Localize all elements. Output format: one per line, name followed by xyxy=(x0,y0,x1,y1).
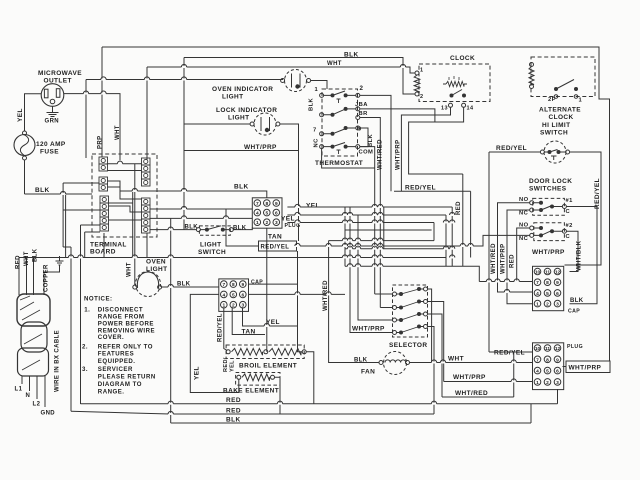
wire terminal board internal 4 xyxy=(109,219,142,221)
wire v345 xyxy=(344,207,346,266)
svg-text:2P: 2P xyxy=(548,97,556,103)
wire hi limit right xyxy=(565,152,602,265)
node L2 label xyxy=(33,402,41,408)
wire broil right down xyxy=(306,352,314,404)
wire GND lead xyxy=(44,376,46,407)
svg-text:POWER BEFORE: POWER BEFORE xyxy=(98,320,154,327)
svg-text:RED: RED xyxy=(16,255,22,269)
svg-text:2.: 2. xyxy=(82,344,88,351)
broil element label xyxy=(239,363,297,370)
svg-text:WHT/RED: WHT/RED xyxy=(378,139,384,170)
wire bundle y248.75 xyxy=(345,248,452,250)
wire frame left verticals xyxy=(63,183,100,411)
thermostat contacts row1 xyxy=(324,91,356,103)
node BLK label xyxy=(344,52,359,59)
svg-text:3: 3 xyxy=(556,380,559,386)
svg-text:11: 11 xyxy=(545,346,550,352)
svg-text:LIGHT: LIGHT xyxy=(222,94,244,101)
svg-text:CLOCK: CLOCK xyxy=(450,55,475,62)
svg-text:C: C xyxy=(566,209,571,215)
node WHT/PRP label xyxy=(244,144,277,151)
svg-text:2: 2 xyxy=(546,302,549,308)
wire C2 to cap WHT/BLK xyxy=(566,231,578,271)
svg-text:14: 14 xyxy=(467,106,474,112)
wire bundle h4 xyxy=(345,229,432,231)
svg-text:RED/YEL: RED/YEL xyxy=(405,185,436,192)
node YEL label xyxy=(17,108,24,122)
svg-text:SWITCH: SWITCH xyxy=(540,130,568,137)
svg-text:9: 9 xyxy=(556,280,559,286)
node WHT/PRP pair label xyxy=(396,140,402,170)
svg-text:#1: #1 xyxy=(566,198,574,204)
svg-text:YEL: YEL xyxy=(266,319,280,326)
microwave outlet xyxy=(41,84,64,107)
wire selector out1 xyxy=(428,289,432,363)
svg-text:4: 4 xyxy=(536,369,539,375)
svg-text:RED/YEL: RED/YEL xyxy=(261,245,290,251)
plug connector center xyxy=(252,198,282,228)
fan xyxy=(379,352,410,375)
wire lock ind right to WHT/PRP xyxy=(280,124,299,151)
BX cable sheath xyxy=(17,294,50,376)
svg-text:HI LIMIT: HI LIMIT xyxy=(542,122,570,129)
wire outlet right lead xyxy=(64,94,120,161)
wire BLK y190 into plug top xyxy=(133,191,267,198)
svg-text:2: 2 xyxy=(360,85,364,92)
wire vertical x86 xyxy=(85,80,87,159)
svg-text:4: 4 xyxy=(536,291,539,297)
svg-text:BLK: BLK xyxy=(368,133,374,147)
oven light label xyxy=(146,259,168,274)
node WHT label vertical xyxy=(115,125,121,140)
wire BLK bus y57.5 xyxy=(184,58,415,95)
wire terminal board internal 1 xyxy=(107,164,142,171)
wire fan left xyxy=(329,241,379,363)
wire WHT/PRP line xyxy=(184,150,299,152)
wire y79.5 outlet to oven indicator xyxy=(86,79,283,81)
svg-text:11: 11 xyxy=(545,270,550,276)
wire RED/YEL to hi limit xyxy=(489,151,540,153)
node BLK label xyxy=(33,248,39,262)
node WHT vertical label xyxy=(127,262,133,277)
svg-text:RED/YEL: RED/YEL xyxy=(496,145,527,152)
svg-text:YEL: YEL xyxy=(281,216,295,223)
svg-text:4: 4 xyxy=(256,211,259,217)
svg-text:WHT/BLK: WHT/BLK xyxy=(577,240,583,271)
svg-text:BLK: BLK xyxy=(35,187,50,194)
node BLK label xyxy=(354,358,368,364)
wire oven light up WHT xyxy=(134,164,136,285)
door lock 1 labels xyxy=(519,197,573,217)
node BLK label xyxy=(35,187,50,194)
alternate clock label xyxy=(539,107,581,122)
svg-text:6: 6 xyxy=(556,291,559,297)
wire selector row1 feed xyxy=(375,293,393,295)
svg-text:RED/YEL: RED/YEL xyxy=(594,178,601,209)
wire strip E to plug y218.4 xyxy=(150,217,253,219)
wire x470.6 RED drop xyxy=(470,191,472,257)
node WHT/RED vertical label xyxy=(323,280,329,311)
broil element xyxy=(226,348,306,355)
node RED vertical label xyxy=(456,201,462,215)
wire YEL jog to broil right xyxy=(243,307,303,352)
svg-text:TAN: TAN xyxy=(242,329,256,336)
node YEL label right xyxy=(306,203,320,210)
svg-text:C: C xyxy=(566,234,571,240)
wire fan right to plug xyxy=(410,362,533,364)
wire WHT drop xyxy=(26,258,28,296)
svg-text:9: 9 xyxy=(358,127,362,133)
svg-text:GND: GND xyxy=(41,411,56,417)
svg-text:WHT: WHT xyxy=(127,262,133,277)
clock coil xyxy=(414,68,423,101)
terminal board label xyxy=(90,242,127,256)
svg-text:ALTERNATE: ALTERNATE xyxy=(539,107,581,114)
node RED label xyxy=(16,255,22,269)
node WHT/RED vertical label xyxy=(491,243,497,274)
svg-text:THERMOSTAT: THERMOSTAT xyxy=(315,160,363,167)
svg-text:CAP: CAP xyxy=(568,309,580,315)
microwave outlet label xyxy=(38,70,82,85)
terminal board dashed box xyxy=(92,154,157,237)
wire pin14 via y122 xyxy=(409,107,464,174)
wire terminal board internal 3 xyxy=(109,203,142,212)
node FAN label xyxy=(361,369,375,376)
svg-text:9: 9 xyxy=(241,282,244,288)
svg-text:WHT/PRP: WHT/PRP xyxy=(532,249,565,256)
wire selector out3 xyxy=(428,314,443,397)
svg-text:3: 3 xyxy=(556,302,559,308)
svg-text:8: 8 xyxy=(265,201,268,207)
boxed RED/YEL tag xyxy=(226,209,297,251)
svg-text:WHT: WHT xyxy=(24,251,30,266)
svg-text:5: 5 xyxy=(232,292,235,298)
svg-text:7: 7 xyxy=(536,280,539,286)
wire COM down WHT/RED1 xyxy=(360,147,375,294)
node RED/YEL vertical label xyxy=(218,313,224,342)
svg-text:OVEN INDICATOR: OVEN INDICATOR xyxy=(212,86,273,93)
wire x170.7 vertical xyxy=(170,218,172,423)
wire BLK oven light to cap xyxy=(162,286,219,288)
wire selector out2 xyxy=(428,302,444,382)
svg-text:PLUG: PLUG xyxy=(567,344,583,350)
light switch label xyxy=(198,242,226,257)
node RED/YEL label xyxy=(405,185,436,192)
wire BLK line xyxy=(171,404,531,423)
node WIRE IN BX CABLE label xyxy=(55,330,61,392)
svg-text:RANGE.: RANGE. xyxy=(98,389,125,396)
node RED label small xyxy=(223,357,229,372)
svg-text:GRN: GRN xyxy=(45,119,60,125)
oven light xyxy=(133,272,162,297)
svg-text:1: 1 xyxy=(420,68,423,74)
svg-text:MICROWAVE: MICROWAVE xyxy=(38,70,82,77)
node WHT/PRP label xyxy=(352,326,385,333)
node CAP label xyxy=(568,309,580,315)
svg-text:DOOR LOCK: DOOR LOCK xyxy=(529,178,572,185)
fuse label xyxy=(36,141,66,156)
node RED/YEL vertical label xyxy=(594,178,601,209)
node YEL label xyxy=(194,366,201,380)
boxed WHT/PRP tag xyxy=(563,361,611,373)
wire row2 feed xyxy=(479,281,532,283)
svg-text:7: 7 xyxy=(313,128,317,134)
node WHT/BLK vertical label xyxy=(577,240,583,271)
svg-text:BLK: BLK xyxy=(309,97,315,111)
node L1 label xyxy=(15,387,23,393)
wire plug right bundle h3 xyxy=(287,222,434,224)
svg-text:5: 5 xyxy=(546,369,549,375)
svg-text:WHT/PRP: WHT/PRP xyxy=(569,365,602,372)
svg-text:BLK: BLK xyxy=(344,52,359,59)
wire NO1 drop xyxy=(498,203,533,292)
svg-text:WHT/PRP: WHT/PRP xyxy=(501,244,507,274)
svg-text:N: N xyxy=(26,393,31,399)
svg-text:NO: NO xyxy=(519,197,529,203)
wire lockout to tag xyxy=(298,151,299,327)
wire WHT bus y67 xyxy=(147,67,415,160)
node RED label xyxy=(226,397,241,404)
svg-text:COPPER: COPPER xyxy=(44,264,50,292)
thermostat pins right xyxy=(356,93,360,148)
cap connector center xyxy=(219,279,249,312)
svg-text:5: 5 xyxy=(546,291,549,297)
svg-text:NC: NC xyxy=(519,236,529,242)
svg-text:L2: L2 xyxy=(33,402,41,408)
svg-text:12: 12 xyxy=(555,270,561,276)
wire plug right bundle h2 xyxy=(287,215,446,266)
wire terminal board drops xyxy=(104,191,147,258)
wire RED/YEL down to plug xyxy=(488,152,490,352)
wire bundle y240.6 xyxy=(329,240,434,242)
notice text block xyxy=(82,296,156,396)
wire selector row2 feed xyxy=(380,307,392,309)
svg-text:CLOCK: CLOCK xyxy=(549,114,574,121)
node BLK label xyxy=(177,282,191,288)
selector dashed box xyxy=(393,285,428,337)
wire NC1 drop xyxy=(507,210,532,304)
node WHT label xyxy=(24,251,30,266)
wire TAN drop xyxy=(266,228,268,352)
svg-text:WHT: WHT xyxy=(115,125,121,140)
node RED/YEL label xyxy=(494,350,525,357)
node PLUG label xyxy=(285,223,301,229)
svg-text:1: 1 xyxy=(579,98,583,104)
node BLK label xyxy=(226,417,241,424)
svg-text:SWITCHES: SWITCHES xyxy=(529,186,567,193)
svg-text:WHT: WHT xyxy=(448,356,464,363)
svg-text:PLEASE RETURN: PLEASE RETURN xyxy=(98,374,156,381)
wire NC jog xyxy=(322,149,375,168)
svg-text:LIGHT: LIGHT xyxy=(200,242,222,249)
wire cap pin1 to broil left xyxy=(224,307,227,350)
node WHT label xyxy=(327,61,342,67)
oven indicator label xyxy=(212,86,273,101)
node WHT/PRP label above cap xyxy=(532,249,565,256)
node YEL label lower xyxy=(281,216,295,223)
wire terminal board internal 2 xyxy=(108,181,142,199)
wire WHT/RED to RED/YEL junction xyxy=(442,352,514,397)
wire BLK line y194 xyxy=(25,193,93,195)
svg-text:SWITCH: SWITCH xyxy=(198,249,226,256)
node WHT/RED wire label xyxy=(455,390,488,397)
svg-text:EQUIPPED.: EQUIPPED. xyxy=(98,358,136,365)
svg-text:13: 13 xyxy=(441,106,448,112)
clock pins 13 14 xyxy=(441,103,474,111)
svg-text:RED: RED xyxy=(226,408,241,415)
node RED label xyxy=(226,408,241,415)
svg-text:COM: COM xyxy=(359,150,374,156)
wire NC2 left xyxy=(297,235,530,246)
svg-text:7: 7 xyxy=(222,282,225,288)
wire pin2 to RED/YEL junction xyxy=(360,95,391,191)
thermostat pins left xyxy=(320,93,324,148)
node YEL label small xyxy=(230,360,236,372)
svg-text:6: 6 xyxy=(241,292,244,298)
wire RED/YEL into plug xyxy=(489,351,532,353)
svg-text:8: 8 xyxy=(546,280,549,286)
svg-text:DIAGRAM TO: DIAGRAM TO xyxy=(98,381,142,388)
clock switch xyxy=(450,90,467,98)
light switch xyxy=(196,226,233,232)
svg-text:7: 7 xyxy=(256,201,259,207)
svg-text:YEL: YEL xyxy=(230,360,236,372)
wire cap right y294 to fan drop xyxy=(249,293,345,295)
svg-text:PRP: PRP xyxy=(98,135,104,149)
wire BLK drop xyxy=(33,258,35,296)
wire selector out4 xyxy=(428,327,435,415)
wire v383.8 xyxy=(383,207,385,249)
selector contacts xyxy=(397,287,424,335)
light switch dashed box xyxy=(199,226,230,235)
door lock switch 2 xyxy=(530,226,567,237)
svg-text:TAN: TAN xyxy=(268,234,282,241)
svg-text:9: 9 xyxy=(275,201,278,207)
svg-text:6: 6 xyxy=(556,369,559,375)
svg-text:3: 3 xyxy=(241,303,244,309)
svg-text:12: 12 xyxy=(555,346,561,352)
node RED/YEL label xyxy=(496,145,527,152)
node RED vertical label xyxy=(510,254,516,268)
svg-text:RED: RED xyxy=(510,254,516,268)
svg-text:WHT/RED: WHT/RED xyxy=(491,243,497,274)
svg-text:2: 2 xyxy=(265,220,268,226)
svg-text:NC: NC xyxy=(519,211,529,217)
svg-text:10: 10 xyxy=(535,346,541,352)
svg-text:YEL: YEL xyxy=(17,108,24,122)
svg-text:1: 1 xyxy=(536,302,539,308)
thermostat contacts row3 xyxy=(324,126,356,136)
svg-text:YEL: YEL xyxy=(306,203,320,210)
terminal strip B xyxy=(99,177,108,191)
terminal strip C xyxy=(100,196,109,231)
wire YEL cap to bake xyxy=(190,294,239,392)
wire lock ind left xyxy=(184,123,250,125)
wire cap right y284 xyxy=(249,283,298,285)
node COPPER label xyxy=(44,264,50,292)
svg-text:BLK: BLK xyxy=(226,417,241,424)
svg-text:BLK: BLK xyxy=(233,226,247,232)
svg-text:REFER ONLY TO: REFER ONLY TO xyxy=(98,344,153,351)
svg-text:WHT/RED: WHT/RED xyxy=(455,390,488,397)
wire long bus y257.5 xyxy=(19,257,446,259)
svg-text:1.: 1. xyxy=(84,306,90,313)
thermostat contacts row2 xyxy=(324,107,356,117)
node CAP label xyxy=(251,280,263,286)
door lock switch 2 box xyxy=(534,223,565,241)
svg-text:OUTLET: OUTLET xyxy=(44,78,72,85)
wire PRP vertical from top line to terminal board xyxy=(101,47,103,157)
svg-text:SERVICER: SERVICER xyxy=(98,366,133,373)
svg-text:3: 3 xyxy=(275,220,278,226)
node GND label xyxy=(41,411,56,417)
terminal strip E xyxy=(142,198,151,233)
svg-text:OVEN: OVEN xyxy=(146,259,166,266)
svg-text:9: 9 xyxy=(556,357,559,363)
svg-text:RANGE FROM: RANGE FROM xyxy=(98,313,145,320)
svg-text:BROIL ELEMENT: BROIL ELEMENT xyxy=(239,363,297,370)
svg-text:1: 1 xyxy=(256,220,259,226)
svg-text:FEATURES: FEATURES xyxy=(98,351,134,358)
wire x184 vertical xyxy=(183,58,185,230)
thermostat contacts row4 xyxy=(324,143,356,155)
wire outlet left lead xyxy=(25,94,42,132)
svg-text:WHT/PRP: WHT/PRP xyxy=(396,140,402,170)
clock dashed box xyxy=(419,64,490,102)
svg-text:WHT/PRP: WHT/PRP xyxy=(453,374,486,381)
svg-text:RED: RED xyxy=(456,201,462,215)
selector right pins xyxy=(424,287,428,329)
svg-text:FUSE: FUSE xyxy=(40,149,59,156)
door lock switch 1 xyxy=(530,201,567,212)
node BLK label xyxy=(234,184,249,191)
svg-text:120 AMP: 120 AMP xyxy=(36,141,66,148)
svg-text:JBA: JBA xyxy=(355,102,368,108)
svg-text:LIGHT: LIGHT xyxy=(228,115,250,122)
hi limit label xyxy=(540,122,570,137)
node PLUG label xyxy=(567,344,583,350)
wire pin13 to RED/YEL xyxy=(401,107,450,191)
wire fuse bottom to BLK line xyxy=(24,160,26,194)
wire crossover hops xyxy=(61,64,520,415)
thermostat dashed box xyxy=(322,89,358,156)
node WHT/PRP wire label xyxy=(453,374,486,381)
node N label xyxy=(26,393,31,399)
svg-text:BOARD: BOARD xyxy=(90,249,116,256)
thermostat label xyxy=(315,160,363,167)
svg-text:BLK: BLK xyxy=(177,282,191,288)
door lock switches label xyxy=(529,178,572,193)
wire NO2 drop xyxy=(517,228,530,282)
node PRP label vertical xyxy=(98,135,104,149)
node BLK bracket label xyxy=(368,133,374,147)
wire WHT/PRP to plug xyxy=(444,381,532,383)
svg-text:TERMINAL: TERMINAL xyxy=(90,242,127,249)
svg-text:RED: RED xyxy=(226,397,241,404)
wire plug right bundle h1 xyxy=(287,207,452,266)
svg-text:1: 1 xyxy=(536,380,539,386)
oven indicator light xyxy=(281,70,311,92)
wire cap pin2 TAN jog xyxy=(232,307,265,335)
svg-text:FAN: FAN xyxy=(361,369,375,376)
wire bundle y266.25 xyxy=(345,266,479,281)
svg-text:6: 6 xyxy=(275,211,278,217)
clock label xyxy=(450,55,475,62)
bake element xyxy=(237,374,275,381)
svg-text:8: 8 xyxy=(232,282,235,288)
alternate clock switch xyxy=(554,80,578,99)
svg-text:8: 8 xyxy=(546,357,549,363)
